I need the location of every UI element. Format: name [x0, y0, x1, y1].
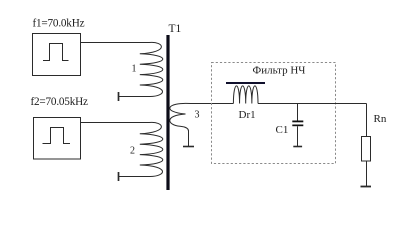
svg-text:Dr1: Dr1: [239, 109, 256, 121]
transformer core: [166, 35, 169, 190]
svg-text:C1: C1: [276, 124, 289, 136]
wire G2 to winding 2: [81, 122, 150, 124]
winding 2 terminal bar: [118, 172, 120, 181]
capacitor C1 terminal bar: [293, 146, 302, 148]
capacitor C1 plate bottom: [292, 125, 303, 127]
winding 2: [81, 122, 163, 176]
inductor Dr1 core bar: [226, 82, 265, 84]
generator G1 box: [33, 34, 81, 76]
svg-text:2: 2: [130, 146, 135, 157]
svg-text:1: 1: [132, 64, 137, 75]
svg-text:f1=70.0kHz: f1=70.0kHz: [33, 18, 85, 30]
wire G1 to winding 1: [81, 42, 150, 44]
dashed filter box: [212, 63, 336, 164]
svg-text:f2=70.05kHz: f2=70.05kHz: [31, 96, 88, 108]
capacitor C1 lead top: [297, 104, 299, 121]
winding 1 terminal bar: [118, 92, 120, 101]
inductor Dr1 winding: [233, 86, 258, 104]
winding 1: [81, 42, 163, 96]
Rn terminal bar: [361, 186, 372, 188]
wire Dr1 to elbow: [258, 103, 367, 105]
capacitor C1 plate top: [292, 121, 303, 123]
capacitor C1 lead bottom: [297, 126, 299, 146]
wire elbow down to Rn: [366, 104, 368, 137]
generator G2 box: [34, 118, 81, 160]
winding 3 terminal bar: [183, 146, 194, 148]
winding 3: [170, 103, 234, 146]
pulse symbol in G1: [43, 44, 69, 61]
pulse symbol in G2: [43, 128, 71, 144]
svg-text:3: 3: [195, 110, 200, 121]
svg-text:Rn: Rn: [374, 113, 387, 125]
resistor Rn bottom lead: [366, 161, 368, 186]
resistor Rn body: [362, 137, 371, 162]
svg-text:Фильтр НЧ: Фильтр НЧ: [253, 65, 306, 77]
svg-text:T1: T1: [169, 23, 182, 35]
